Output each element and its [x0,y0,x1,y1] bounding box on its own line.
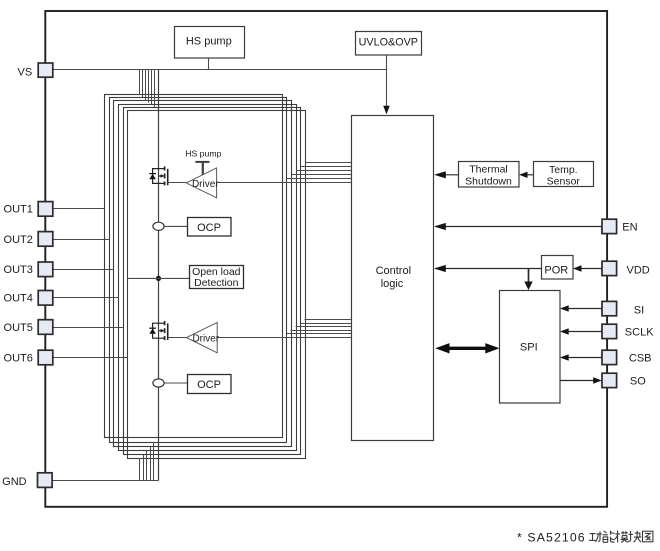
svg-text:CSB: CSB [629,353,652,365]
wire POR branch to SPI [528,269,530,288]
wire SCLK [562,331,602,333]
svg-text:Control: Control [376,265,411,277]
wire OUT3 [53,269,114,271]
OCP sensor 2 [153,379,164,387]
SPI block [500,291,561,404]
svg-text:OCP: OCP [197,222,221,234]
OCP block 2 [188,375,232,394]
GND stubs from channel boxes [140,443,154,481]
wire OUT6 [53,357,128,359]
wire SI [562,308,602,310]
wire node to open load [159,277,190,279]
UVLO&OVP block [356,32,422,56]
svg-text:HS pump: HS pump [185,149,221,159]
pin SI [602,301,644,316]
块 [628,531,633,542]
wire M1 gate [168,182,187,184]
OCP sensor 1 [153,222,164,230]
svg-text:EN: EN [622,221,637,233]
wire OUT5 [53,327,124,329]
wire VS rail [53,69,387,71]
svg-text:SO: SO [630,376,646,388]
wire OUT1 [53,208,105,210]
svg-text:SPI: SPI [520,341,538,353]
svg-text:Open load: Open load [192,266,241,278]
driver U2 (low side) [187,322,220,352]
pin OUT4 [4,291,53,306]
svg-text:OCP: OCP [197,379,221,391]
pin CSB [602,350,652,364]
svg-text:SI: SI [634,305,644,317]
wire temp sensor to thermal shutdown [521,174,533,176]
Thermal Shutdown block [459,162,520,188]
HS pump label small [185,149,221,175]
pin OUT3 [4,262,53,277]
模 [615,531,620,543]
Open load Detection block [190,266,244,290]
svg-text:Thermal: Thermal [469,164,508,176]
pin VDD [602,261,650,276]
channel box 3 [114,101,292,447]
channel box 1 (front, with content) [105,95,283,438]
channel box 2 [110,98,287,443]
caption hanzi 功能模块图 [589,531,653,543]
node N1 [156,276,161,281]
svg-text:VDD: VDD [627,265,650,277]
bus driver1 outputs channels 2-6 [287,163,352,179]
bus driver2 outputs channels 2-6 [287,320,352,334]
svg-text:logic: logic [381,278,404,290]
wire drain line channel 1 [158,70,160,481]
pin SCLK [602,324,654,338]
svg-text:VS: VS [18,66,33,78]
wire POR to control logic [436,268,542,270]
svg-text:Shutdown: Shutdown [465,175,512,187]
pin SO [602,373,646,388]
wire UVLO to control logic [386,55,388,114]
wire EN [436,226,602,228]
能 [603,531,608,542]
wire M2 gate [168,337,187,339]
wire GND rail [51,480,159,482]
wire VDD to POR [575,268,602,270]
pin OUT2 [4,232,53,247]
transistor M2 (low side) [153,321,168,340]
svg-text:OUT6: OUT6 [4,352,33,364]
wire SO [560,380,600,382]
功 [589,534,596,541]
channel box 6 [128,111,306,459]
pin OUT5 [4,320,53,335]
wire node left [128,277,159,279]
M2 body arrow [161,329,165,333]
channel box 5 [124,108,301,455]
图 [643,531,653,542]
svg-text:OUT3: OUT3 [4,264,33,276]
svg-text:Detection: Detection [194,277,239,289]
svg-text:OUT1: OUT1 [4,204,33,216]
M2 body diode [149,329,156,334]
HS pump block [175,27,245,59]
driver U1 (high side) [186,168,219,198]
svg-text:HS pump: HS pump [186,35,232,47]
svg-text:OUT4: OUT4 [4,293,33,305]
wire thermal shutdown to control logic [436,174,458,176]
Temp. Sensor block [534,162,594,188]
pin VS [18,63,53,78]
svg-text:Driver: Driver [192,334,219,345]
pin OUT1 [4,202,53,217]
chip outline [45,11,607,507]
wire OUT2 [53,239,110,241]
VS supply stubs to channel boxes [140,70,155,108]
svg-text:SCLK: SCLK [625,327,654,339]
svg-text:POR: POR [544,264,568,276]
wire driver1 output [217,182,352,184]
svg-text:UVLO&OVP: UVLO&OVP [359,37,418,49]
OCP block 1 [188,218,232,237]
bus control logic to SPI (bidirectional) [446,347,489,350]
M1 body diode [149,174,156,179]
svg-text:* SA52106: * SA52106 [517,530,586,544]
svg-text:Sensor: Sensor [547,176,581,188]
Control logic block [352,116,434,441]
channel box 4 [119,105,297,451]
wire HS pump to VS rail [208,58,210,70]
svg-text:GND: GND [2,476,27,488]
pin GND [2,473,52,488]
pin EN [602,219,638,233]
wire driver2 output [218,337,352,339]
wire CSB [562,357,602,359]
svg-text:Driver: Driver [192,179,219,190]
pin OUT6 [4,350,53,365]
svg-text:OUT5: OUT5 [4,322,33,334]
wire OCP1 [164,225,188,227]
wire OUT4 [53,297,119,299]
svg-text:OUT2: OUT2 [4,234,33,246]
svg-text:Temp.: Temp. [549,164,578,176]
POR block [542,256,574,280]
transistor M1 (high side) [153,166,168,185]
M1 body arrow [161,174,165,178]
wire OCP2 [164,382,188,384]
